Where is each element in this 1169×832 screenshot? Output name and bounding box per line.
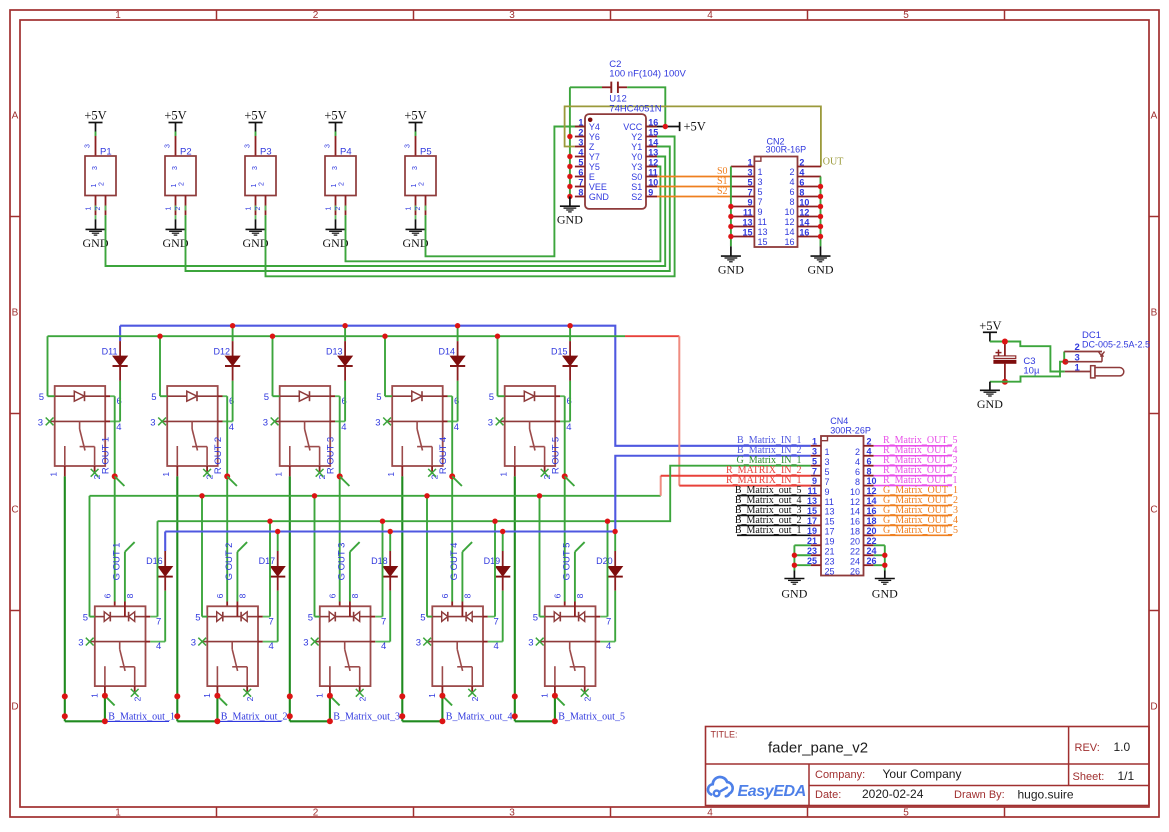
+5V power symbol (P4) [324,109,346,132]
svg-text:5: 5 [420,612,425,623]
+5V power symbol (DC input) [979,319,1001,342]
svg-text:Y3: Y3 [631,162,642,172]
svg-text:15: 15 [807,506,817,516]
svg-text:5: 5 [758,187,763,197]
wire stub diagonal R OUT 4 [452,476,462,486]
no-connect X relay R OUT 1 pin 3 [46,418,54,426]
svg-text:D16: D16 [146,556,163,566]
svg-text:3: 3 [325,144,332,148]
svg-text:4: 4 [156,641,161,652]
junction dot R OUT 1 [112,473,118,479]
ground symbol GND (CN4 left) [781,579,807,601]
svg-text:74HC4051N: 74HC4051N [609,104,661,115]
relay G OUT 5 (B_Matrix_out_5) [528,593,615,701]
svg-text:D20: D20 [596,556,613,566]
svg-text:1: 1 [1075,363,1081,374]
svg-text:R OUT 3: R OUT 3 [326,437,337,474]
wire stub diagonal R OUT 1 [115,476,125,486]
no-connect X relay R OUT 5 pin 2 [541,469,549,477]
wire P4 pin1 to ground [335,215,337,229]
wire stub diagonal B_Matrix_out_5 [555,696,565,706]
wire U12 pin8 to ground [569,197,571,207]
svg-text:8: 8 [463,593,473,598]
svg-text:3: 3 [825,457,830,467]
svg-text:1: 1 [274,472,284,477]
wire bottom B_Matrix_out_5 [515,720,555,722]
svg-text:2: 2 [335,206,342,210]
svg-text:13: 13 [825,507,835,517]
wire D17 to G relay pin4 [277,591,279,642]
svg-text:2: 2 [578,127,583,137]
wire R relay 1 pin1 down to B_Matrix_out_1 [64,476,66,721]
no-connect X relay G OUT 4 pin 2 [468,689,476,697]
svg-text:4: 4 [799,167,804,177]
wire P4 pin2 to U12 analog input [346,167,661,262]
svg-text:11: 11 [648,167,658,177]
svg-text:11: 11 [758,217,767,227]
svg-text:P5: P5 [420,147,432,158]
svg-text:C: C [1150,505,1157,516]
svg-text:4: 4 [566,422,571,433]
svg-text:R OUT 2: R OUT 2 [213,437,224,474]
svg-text:1: 1 [812,436,817,446]
net label B_Matrix_out_3 at CN4 [735,505,811,516]
wire relay R OUT 3 pin6/pin4 down to G relay pin6 [339,396,341,616]
junction dot R OUT 5 [562,473,568,479]
border column ticks top [217,10,1005,20]
relay R OUT 1 [38,386,122,479]
svg-text:5: 5 [308,612,313,623]
diode D20 [596,532,623,591]
wire stub diagonal B_Matrix_out_4 [442,696,452,706]
wire P2 pin2 to U12 analog input [186,147,670,272]
EasyEDA logo [708,777,806,800]
svg-text:D11: D11 [102,346,118,356]
wire CN2 right GND bus [820,177,822,247]
wire G relay 3 pin1 down [329,693,331,721]
svg-text:3: 3 [332,166,339,170]
svg-text:Y0: Y0 [631,152,642,162]
wire +5V to DC1 pin1 [990,342,1065,372]
diode D11 [102,326,128,381]
svg-text:+5V: +5V [404,109,426,123]
svg-text:+5V: +5V [979,319,1001,333]
capacitor C2 [602,59,687,93]
wire CN4 right GND hook [874,545,885,578]
svg-text:Y7: Y7 [589,152,600,162]
no-connect X relay G OUT 3 pin 2 [356,689,364,697]
svg-text:R OUT 5: R OUT 5 [551,437,562,474]
diode D17 [259,532,286,591]
svg-text:25: 25 [825,566,835,576]
svg-text:D17: D17 [259,556,276,566]
svg-text:1: 1 [166,206,173,210]
svg-text:7: 7 [381,616,386,627]
svg-text:8: 8 [578,187,583,197]
svg-text:E: E [589,172,595,182]
diode D13 [326,326,353,381]
wire G relay 3 pin5 riser [314,496,316,617]
wire R relay 3 pin1 down to B_Matrix_out_3 [289,476,291,721]
svg-text:2: 2 [358,696,368,701]
wire stub diagonal R OUT 2 [227,476,237,486]
no-connect X relay R OUT 5 pin 3 [496,418,504,426]
border row ticks right [1149,217,1159,611]
+5V power symbol (P2) [164,109,186,132]
svg-text:12: 12 [648,157,658,167]
svg-text:B_Matrix_out_1: B_Matrix_out_1 [108,711,175,722]
rev text [1075,740,1131,754]
junction dots on B_Matrix_IN_1 rail [230,323,573,328]
wire relay R OUT 5 pin6/pin4 down to G relay pin6 [564,396,566,616]
svg-text:4: 4 [454,422,459,433]
svg-text:4: 4 [341,422,346,433]
svg-text:3: 3 [747,167,752,177]
wire G relay 2 pin1 down [216,693,218,721]
svg-text:20: 20 [850,537,860,547]
date text [815,787,1074,802]
wire G relay 1 pin5 riser [89,496,91,617]
svg-text:2: 2 [95,206,102,210]
svg-text:10µ: 10µ [1023,366,1040,377]
svg-text:9: 9 [812,476,817,486]
svg-text:7: 7 [758,197,763,207]
svg-text:+5V: +5V [84,109,106,123]
svg-text:8: 8 [575,593,585,598]
svg-text:8: 8 [867,466,872,476]
wire G relay 1 pin7 riser [157,521,159,616]
svg-text:7: 7 [825,477,830,487]
svg-text:15: 15 [648,127,658,137]
wire stub diagonal B_Matrix_out_2 [217,696,227,706]
net label B_Matrix_out_5 [558,711,625,722]
svg-text:fader_pane_v2: fader_pane_v2 [768,740,868,757]
net label R_Matrix_OUT_5 [874,435,958,446]
net label B_Matrix_out_2 at CN4 [735,515,811,526]
no-connect X relay G OUT 4 pin 3 [423,638,431,646]
svg-text:A: A [1151,111,1158,122]
svg-text:100 nF(104) 100V: 100 nF(104) 100V [609,69,686,80]
svg-text:16: 16 [648,117,658,127]
svg-text:14: 14 [799,217,809,227]
svg-text:6: 6 [799,177,804,187]
wire G relay 4 pin1 down [441,693,443,721]
svg-text:D18: D18 [371,556,388,566]
no-connect X relay G OUT 2 pin 2 [243,689,251,697]
wire P3 pin1 to ground [255,215,257,229]
no-connect X relay R OUT 3 pin 3 [271,418,279,426]
net label G_Matrix_OUT_4 [874,515,958,526]
svg-text:3: 3 [528,638,533,649]
svg-text:9: 9 [758,207,763,217]
svg-text:3: 3 [758,177,763,187]
svg-text:+5V: +5V [324,109,346,123]
svg-text:S1: S1 [631,182,642,192]
svg-text:P1: P1 [100,147,112,158]
relay G OUT 2 (B_Matrix_out_2) [191,593,278,701]
wire G relay 5 pin7 riser [607,521,609,616]
junction dot C3 top [1002,339,1008,345]
svg-text:6: 6 [215,593,225,598]
wire D15 to relay pin4 [569,381,571,422]
svg-text:7: 7 [269,616,274,627]
+5V power symbol (P5) [404,109,426,132]
wire G relay 2 pin7 riser [269,521,271,616]
potentiometer P2 [165,136,197,215]
wire relay R OUT 1 pin6/pin4 down to G relay pin6 [114,396,116,616]
svg-text:10: 10 [799,197,809,207]
power jack DC1 DC-005-2.5A-2.5 [1064,330,1150,378]
wire bottom B_Matrix_out_3 [290,720,330,722]
svg-text:12: 12 [850,497,860,507]
junction dots on R_MATRIX_IN_2 rail [199,493,542,498]
svg-text:D12: D12 [213,346,230,356]
svg-text:D13: D13 [326,346,343,356]
svg-text:4: 4 [269,641,274,652]
svg-text:3: 3 [85,144,92,148]
no-connect X relay G OUT 3 pin 3 [311,638,319,646]
wire +5V to P5 pin 3 [415,132,417,137]
wire P5 pin2 to U12 analog input [426,127,658,257]
ground symbol GND (P3) [243,229,269,250]
wire +5V to P1 pin 3 [95,132,97,137]
wire rail R_MATRIX_IN_1 (green row1 pin5 rail) [48,335,626,337]
net label R_Matrix_OUT_1 [874,475,958,486]
svg-text:5: 5 [903,10,909,21]
wire S1 [657,186,731,188]
wire GND to DC1 pins 2/3 [1005,362,1066,382]
svg-text:Company:: Company: [815,769,865,781]
svg-text:2: 2 [583,696,593,701]
junction dot DC1 pin3 [1062,359,1068,365]
wire stub diagonal R OUT 5 [565,476,575,486]
svg-text:B_Matrix_out_5: B_Matrix_out_5 [558,711,625,722]
svg-text:5: 5 [195,612,200,623]
svg-text:8: 8 [799,187,804,197]
svg-text:6: 6 [789,187,794,197]
svg-text:13: 13 [758,227,768,237]
wire D11 to relay pin4 [119,381,121,422]
ground symbol GND (P5) [403,229,429,250]
svg-text:3: 3 [263,417,268,428]
ground symbol GND (CN2 right) [808,256,834,277]
net label R_Matrix_OUT_4 [874,445,958,456]
diode D15 [551,326,578,381]
svg-text:3: 3 [812,446,817,456]
svg-text:G OUT 4: G OUT 4 [449,543,460,581]
border column ticks bottom [217,807,1005,817]
border row ticks left [10,217,20,611]
no-connect X relay R OUT 4 pin 3 [383,418,391,426]
svg-text:B_Matrix_out_3: B_Matrix_out_3 [333,711,400,722]
wire P1 pin2 to U12 analog input [106,157,666,267]
net label R_Matrix_OUT_2 [874,465,958,476]
svg-text:S2: S2 [717,186,728,197]
svg-text:9: 9 [648,187,653,197]
svg-text:2: 2 [419,182,426,186]
wire G relay 3 pin7 riser [382,521,384,616]
svg-text:OUT: OUT [823,156,844,167]
wire D16 to G relay pin4 [164,591,166,642]
svg-text:1: 1 [202,693,212,698]
wire D14 to relay pin4 [457,381,459,422]
svg-text:2020-02-24: 2020-02-24 [862,787,924,801]
svg-text:4: 4 [606,641,611,652]
svg-text:1: 1 [326,206,333,210]
wire G relay 4 pin5 riser [426,496,428,617]
wire G relay 1 pin8 riser [125,542,135,617]
svg-text:13: 13 [648,147,658,157]
svg-text:1: 1 [411,183,418,187]
wire rail B_Matrix_IN_2 (blue row2) [165,456,811,532]
junction dots CN4 right GND [882,553,887,568]
svg-text:4: 4 [229,422,234,433]
svg-text:5: 5 [825,467,830,477]
wire relay R OUT 5 pin5 to R rail [497,336,499,396]
net label G_Matrix_OUT_2 [874,495,958,506]
svg-text:3: 3 [245,144,252,148]
svg-text:12: 12 [867,486,877,496]
svg-text:1: 1 [115,808,121,819]
svg-text:3: 3 [405,144,412,148]
svg-text:10: 10 [867,476,877,486]
+5V power symbol (U12 VCC) [657,119,706,133]
wire rail G_Matrix_IN_1 [158,466,811,522]
net label G_Matrix_OUT_3 [874,505,958,516]
svg-text:R OUT 1: R OUT 1 [101,437,112,474]
wire P5 pin1 to ground [415,215,417,229]
op-amp U12 74HC4051N multiplexer [575,94,662,209]
svg-text:2: 2 [255,206,262,210]
svg-text:1: 1 [89,693,99,698]
svg-text:D14: D14 [438,346,455,356]
junction dot R OUT 4 [449,473,455,479]
ground symbol GND (DC input) [977,390,1003,411]
svg-text:D: D [1150,702,1157,713]
svg-text:Drawn By:: Drawn By: [954,789,1005,801]
svg-text:5: 5 [747,177,752,187]
svg-text:3: 3 [509,10,515,21]
svg-text:6: 6 [855,467,860,477]
svg-text:TITLE:: TITLE: [711,730,738,740]
wire CN2 right to ground [820,246,822,256]
svg-text:3: 3 [1075,352,1080,363]
svg-text:5: 5 [376,392,381,403]
potentiometer P4 [325,136,357,215]
svg-text:G OUT 1: G OUT 1 [111,543,122,581]
svg-text:2: 2 [339,182,346,186]
relay R OUT 5 [488,386,572,479]
no-connect X relay R OUT 2 pin 2 [203,469,211,477]
svg-text:1: 1 [331,183,338,187]
junction dots CN2 right [818,184,823,239]
no-connect X relay R OUT 4 pin 2 [428,469,436,477]
svg-text:4: 4 [855,457,860,467]
wire CN2 left GND bus [730,167,732,247]
net label B_Matrix_out_2 [220,711,287,722]
svg-text:8: 8 [238,593,248,598]
no-connect X relay G OUT 5 pin 3 [536,638,544,646]
wire rail R_MATRIX_IN_2 [90,476,811,496]
svg-text:21: 21 [825,547,835,557]
junction dots column 1 [62,693,108,725]
border row letters [11,111,1157,713]
wire D19 to G relay pin4 [502,591,504,642]
svg-text:6: 6 [440,593,450,598]
net label B_Matrix_out_4 [446,711,513,722]
svg-text:GND: GND [718,263,744,277]
svg-text:7: 7 [156,616,161,627]
svg-text:16: 16 [784,237,794,247]
connector CN4 300R-26P [807,416,877,576]
svg-text:6: 6 [867,456,872,466]
svg-text:D19: D19 [484,556,501,566]
company text [815,767,961,781]
no-connect X relay R OUT 1 pin 2 [91,469,99,477]
wire relay R OUT 4 pin6/pin4 down to G relay pin6 [451,396,453,616]
svg-text:A: A [12,111,19,122]
svg-text:6: 6 [103,593,113,598]
no-connect X relay G OUT 1 pin 3 [86,638,94,646]
svg-text:7: 7 [747,187,752,197]
svg-text:3: 3 [191,638,196,649]
svg-text:C: C [11,505,18,516]
wire relay R OUT 3 pin5 to R rail [272,336,274,396]
diode D16 [146,532,173,591]
svg-text:Y4: Y4 [589,122,600,132]
svg-text:1: 1 [406,206,413,210]
net label G_Matrix_OUT_5 [874,525,958,536]
svg-text:4: 4 [707,808,713,819]
svg-text:1: 1 [747,157,752,167]
junction dot R OUT 3 [337,473,343,479]
svg-text:15: 15 [825,517,835,527]
svg-text:4: 4 [116,422,121,433]
wire stub diagonal B_Matrix_out_3 [330,696,340,706]
svg-text:Y5: Y5 [589,162,600,172]
wire bottom B_Matrix_out_4 [402,720,442,722]
svg-text:1: 1 [578,117,583,127]
svg-text:3: 3 [38,417,43,428]
svg-text:1: 1 [825,447,830,457]
wire relay R OUT 4 pin5 to R rail [384,336,386,396]
svg-text:18: 18 [867,516,877,526]
svg-text:2: 2 [245,696,255,701]
wire G relay 4 pin7 riser [494,521,496,616]
relay R OUT 4 [375,386,459,479]
wire net Z (olive) U12 pin3 to CN2 pin2 OUT [565,106,821,166]
svg-text:P3: P3 [260,147,272,158]
svg-text:3: 3 [78,638,83,649]
svg-text:2: 2 [313,10,319,21]
diode D14 [438,326,465,381]
svg-text:2: 2 [415,206,422,210]
svg-text:3: 3 [416,638,421,649]
relay R OUT 3 [263,386,347,479]
no-connect X relay R OUT 3 pin 2 [316,469,324,477]
svg-text:8: 8 [125,593,135,598]
+5V power symbol (P3) [244,109,266,132]
svg-text:16: 16 [799,227,809,237]
svg-text:300R-26P: 300R-26P [830,426,871,436]
relay G OUT 1 (B_Matrix_out_1) [78,593,165,701]
potentiometer P5 [405,136,437,215]
svg-text:19: 19 [807,526,817,536]
svg-text:2: 2 [855,447,860,457]
svg-text:5: 5 [264,392,269,403]
svg-text:Y6: Y6 [589,132,600,142]
relay G OUT 3 (B_Matrix_out_3) [303,593,390,701]
